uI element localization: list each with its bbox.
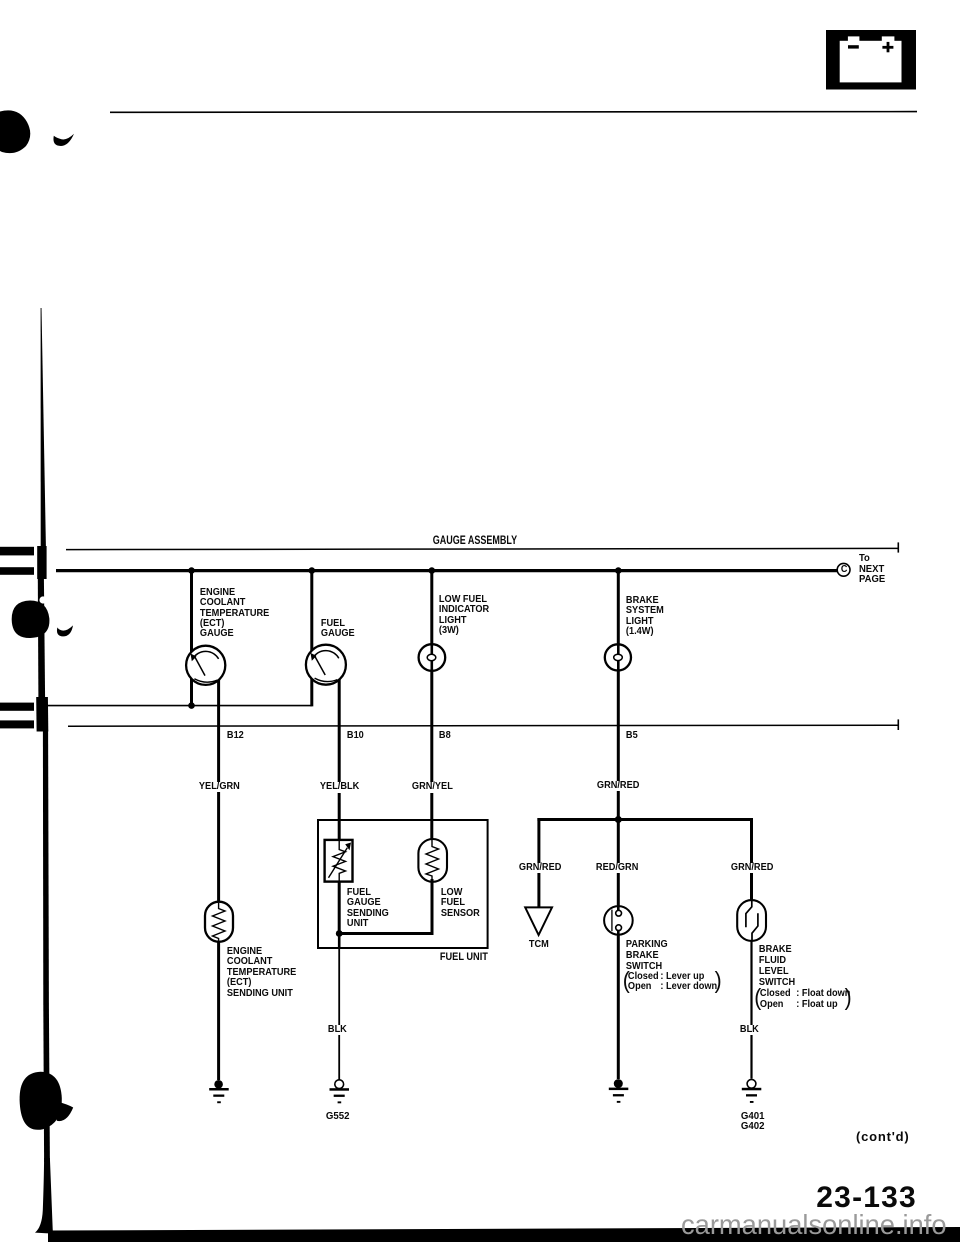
wire BLK to G552 [338,934,341,949]
node page number 23-133 [815,1183,918,1213]
wire parking switch to ground [617,930,620,1079]
op ECT gauge meter [186,646,225,685]
wire rule3 to fuel gauge [48,705,312,707]
ground ECT sending unit [209,1080,229,1103]
pin B8 [438,731,452,741]
ground label G552 [325,1111,350,1121]
node BRAKE FLUID LEVEL SWITCH label [758,945,796,989]
thin rule 1 (gauge assembly top) [66,548,898,549]
connector C to next page [837,563,850,576]
lamp low fuel indicator [419,644,446,671]
pin B5 [625,731,639,741]
ground label G401 G402 [740,1111,765,1132]
switch parking brake [604,906,633,935]
node FUEL GAUGE label [320,619,356,640]
wire low fuel B8/GRN-YEL [430,569,433,881]
node BRAKE SYSTEM LIGHT label [625,596,665,638]
node parking switch states [627,972,718,993]
wire label BLK fuel [327,1025,348,1035]
wire ECT right B12/YEL-GRN [217,665,220,1080]
note contd [855,1130,911,1143]
node LOW FUEL INDICATOR LIGHT label [438,595,490,637]
node FUEL GAUGE SENDING UNIT label [346,888,390,930]
fuel unit box [318,820,488,948]
pin B10 [346,731,365,741]
junction dot branch [615,816,622,823]
wire fuel gauge left vertical [310,569,313,706]
main bus wire [56,569,837,572]
wire label YEL/BLK [319,782,360,792]
tick right end rule1 [897,542,899,552]
node To NEXT PAGE [858,554,886,585]
tick right end rule2 [897,719,899,730]
resistor low fuel sensor [418,839,447,882]
wire label GRN/RED TCM branch [518,863,562,873]
wire label BLK brake fluid [739,1025,760,1035]
node ECT SENDING UNIT label [226,947,297,999]
top rule [110,111,917,114]
wire label RED/GRN [595,863,639,873]
wire sensor to junction [342,879,432,934]
node connector C letter [840,565,848,575]
junction dot fuel unit [336,930,343,937]
resistor ECT sending unit [205,902,233,942]
op fuel gauge meter [306,645,346,685]
wire fuel right B10/YEL-BLK [338,664,341,934]
node brake fluid switch states [759,989,851,1011]
lamp brake system light [605,644,631,670]
pin B12 [226,731,245,741]
ground G401 G402 [742,1079,762,1103]
switch brake fluid level [737,900,766,941]
node ECT gauge label [199,588,270,640]
junction dot gauge common [188,702,195,709]
battery icon [826,30,916,90]
scan blob mid-left [12,601,50,639]
node watermark [680,1211,948,1238]
wire label GRN/YEL [411,782,454,792]
binding line (scan artifact) [12,308,74,1234]
thin rule 2 [68,725,898,726]
branch wire horizontal [537,818,753,821]
bottom black bar [48,1227,960,1242]
wire TCM branch [537,818,540,908]
wire label GRN/RED right branch [730,863,774,873]
node FUEL UNIT label [439,952,489,963]
junction dots on bus [188,567,622,823]
scan blob bottom-left [20,1072,62,1130]
node LOW FUEL SENSOR label [440,888,481,919]
wire ECT left vertical [190,569,193,706]
wire label YEL/GRN [198,782,241,792]
node TCM label [528,940,550,950]
resistor fuel gauge sending unit [325,840,353,882]
ground parking brake switch [609,1079,629,1103]
wire brake fluid to ground [750,940,752,1079]
scan blob top-left [0,110,74,153]
left edge rule stubs [0,547,34,729]
transistor TCM connector triangle [525,907,552,935]
wire brake light B5/GRN-RED [617,569,620,907]
node GAUGE ASSEMBLY header [432,534,518,546]
wire brake fluid branch [750,818,753,901]
ground G552 [330,1080,350,1104]
node PARKING BRAKE SWITCH label [625,939,669,972]
wire label GRN/RED top [596,781,640,791]
